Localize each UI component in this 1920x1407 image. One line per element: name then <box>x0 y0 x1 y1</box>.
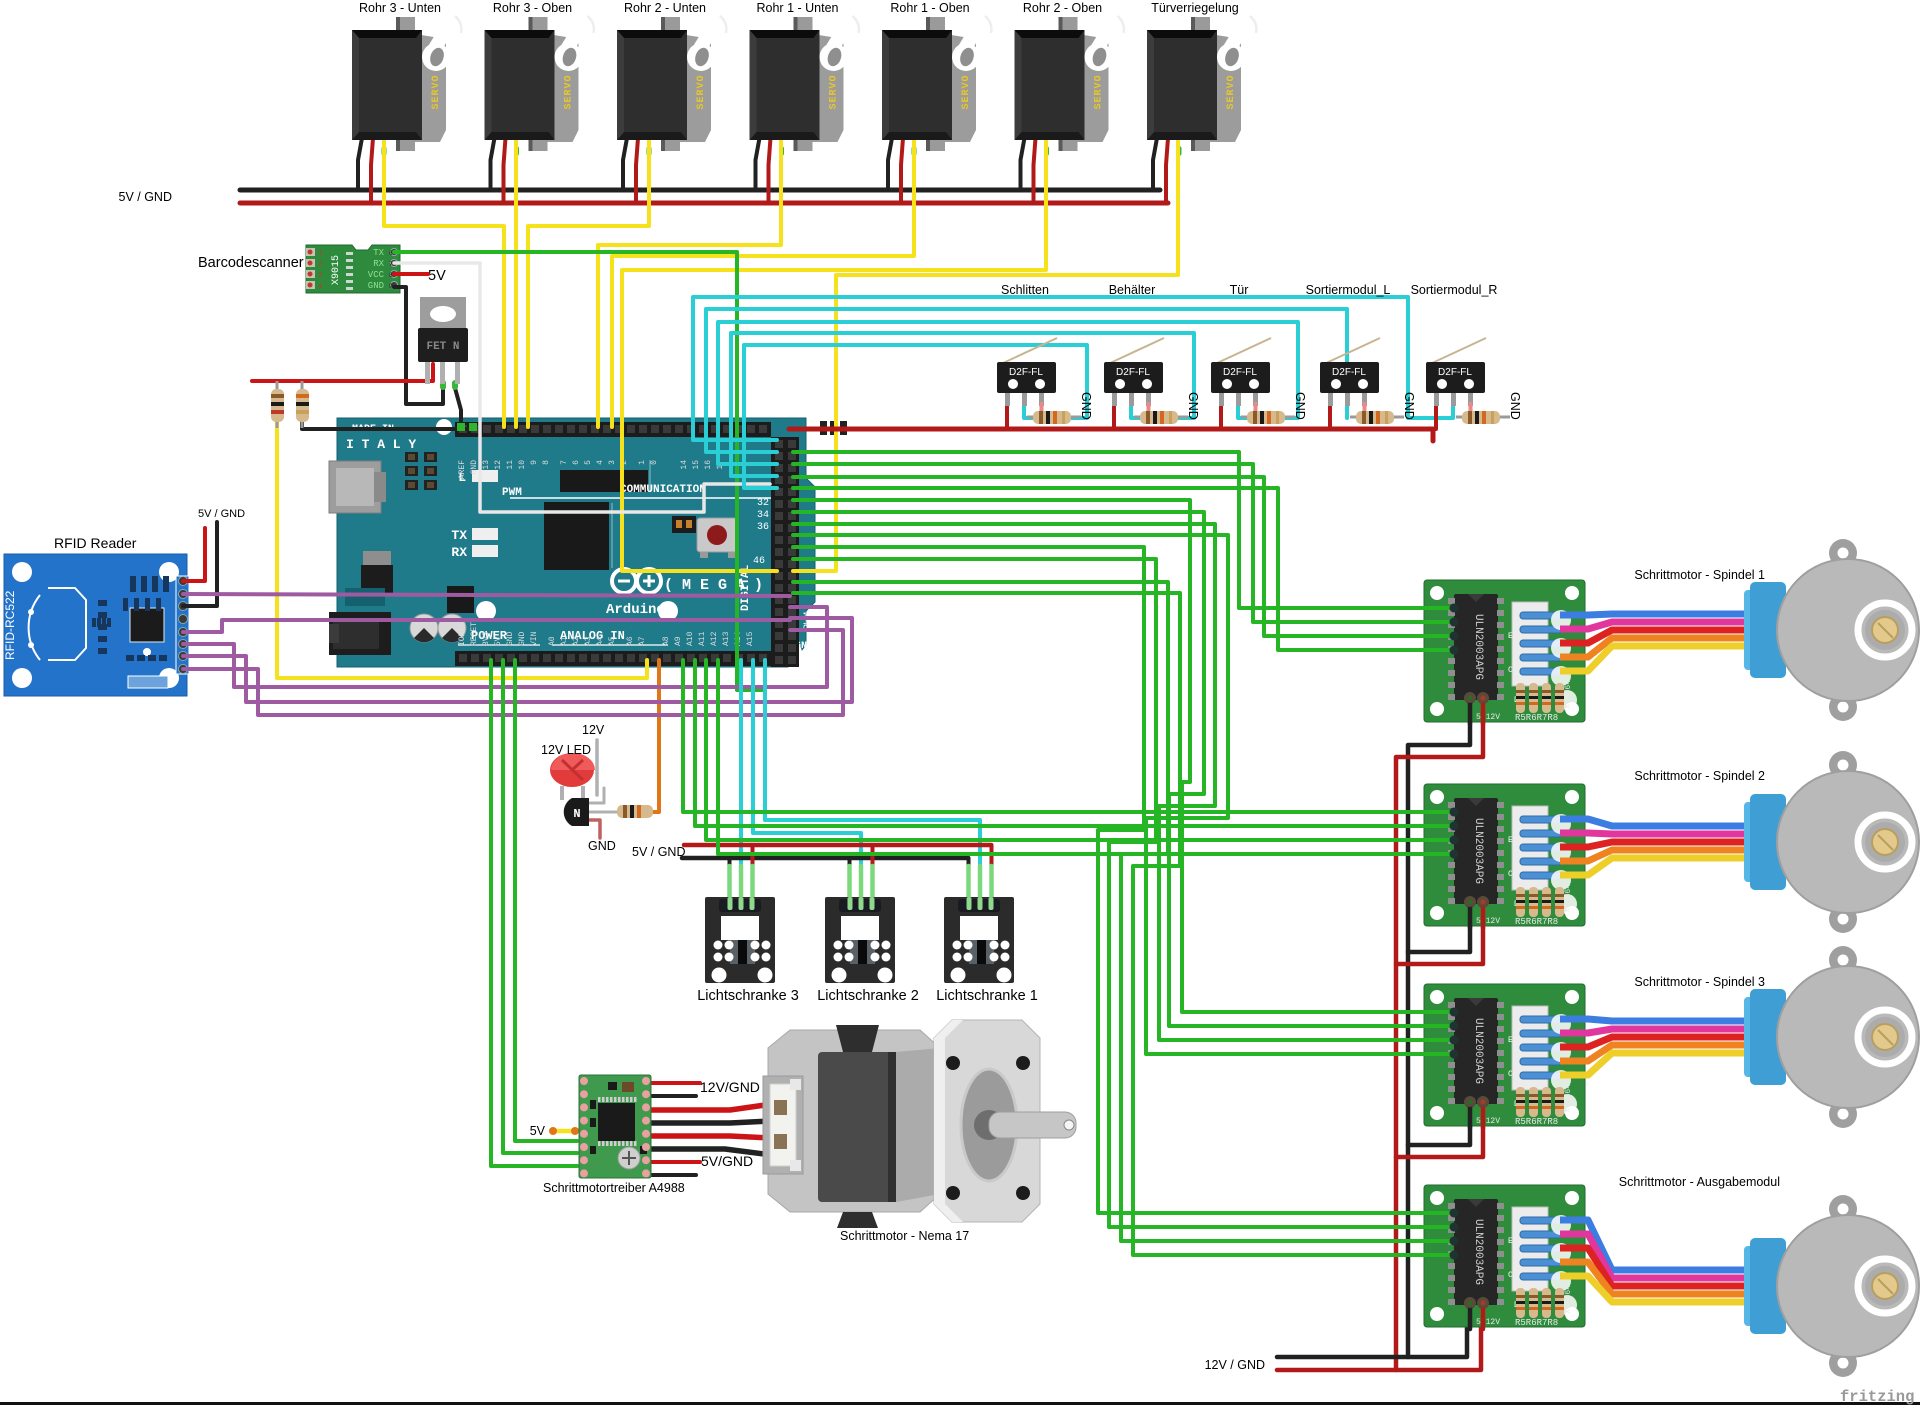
svg-text:Schrittmotor - Spindel 3: Schrittmotor - Spindel 3 <box>1634 975 1765 989</box>
svg-text:12V LED: 12V LED <box>541 743 591 757</box>
svg-text:Schrittmotor - Spindel 1: Schrittmotor - Spindel 1 <box>1634 568 1765 582</box>
svg-text:4: 4 <box>318 283 322 291</box>
svg-text:5V / GND: 5V / GND <box>632 845 686 859</box>
svg-text:fritzing: fritzing <box>1840 1388 1914 1406</box>
svg-text:Rohr 1 - Unten: Rohr 1 - Unten <box>757 1 839 15</box>
svg-text:AREF: AREF <box>458 460 467 479</box>
svg-text:Sortiermodul_L: Sortiermodul_L <box>1306 283 1391 297</box>
svg-text:A2: A2 <box>572 636 581 646</box>
svg-text:GND: GND <box>1293 392 1307 420</box>
svg-text:12: 12 <box>494 460 503 470</box>
svg-text:A10: A10 <box>686 631 695 646</box>
svg-text:A12: A12 <box>710 631 719 646</box>
svg-text:12V: 12V <box>582 723 605 737</box>
svg-text:15: 15 <box>692 460 701 470</box>
svg-text:8: 8 <box>542 460 551 465</box>
svg-text:7: 7 <box>560 460 569 465</box>
svg-text:Rohr 1 - Oben: Rohr 1 - Oben <box>890 1 969 15</box>
svg-text:RESET: RESET <box>470 622 479 646</box>
svg-text:10: 10 <box>518 460 527 470</box>
svg-text:COMMUNICATION: COMMUNICATION <box>620 484 706 496</box>
svg-text:11: 11 <box>506 460 515 470</box>
svg-text:RX: RX <box>451 545 467 560</box>
svg-text:3: 3 <box>318 272 322 280</box>
svg-text:GND: GND <box>1508 392 1522 420</box>
svg-text:A8: A8 <box>662 636 671 646</box>
svg-text:Schrittmotor - Ausgabemodul: Schrittmotor - Ausgabemodul <box>1619 1175 1780 1189</box>
svg-text:14: 14 <box>680 460 689 470</box>
svg-text:RFID Reader: RFID Reader <box>54 535 137 551</box>
svg-text:7: 7 <box>389 261 393 268</box>
svg-text:1: 1 <box>318 250 322 258</box>
svg-text:Tür: Tür <box>1230 283 1249 297</box>
svg-text:Lichtschranke 3: Lichtschranke 3 <box>697 988 799 1004</box>
svg-text:2: 2 <box>318 261 322 269</box>
svg-text:FET N: FET N <box>426 341 459 353</box>
svg-text:TX: TX <box>373 248 384 258</box>
svg-text:Rohr 3 - Unten: Rohr 3 - Unten <box>359 1 441 15</box>
svg-text:13: 13 <box>482 460 491 470</box>
svg-text:5V/GND: 5V/GND <box>701 1153 753 1169</box>
svg-text:12V / GND: 12V / GND <box>1205 1358 1265 1372</box>
svg-text:6: 6 <box>572 460 581 465</box>
svg-text:3: 3 <box>608 460 617 465</box>
svg-text:Rohr 2 - Oben: Rohr 2 - Oben <box>1023 1 1102 15</box>
svg-text:A7: A7 <box>638 636 647 646</box>
svg-text:1: 1 <box>638 460 647 465</box>
svg-text:RX: RX <box>373 259 384 269</box>
svg-text:GND: GND <box>1402 392 1416 420</box>
svg-text:36: 36 <box>757 522 769 533</box>
svg-text:GND: GND <box>368 281 384 291</box>
svg-text:A5: A5 <box>608 636 617 646</box>
svg-text:5V / GND: 5V / GND <box>119 190 173 204</box>
svg-text:12V/GND: 12V/GND <box>700 1079 760 1095</box>
svg-text:Türverriegelung: Türverriegelung <box>1151 1 1239 15</box>
svg-text:N: N <box>573 807 580 821</box>
svg-text:RFID-RC522: RFID-RC522 <box>3 590 17 660</box>
svg-text:5V: 5V <box>428 268 446 284</box>
svg-text:A15: A15 <box>746 631 755 646</box>
svg-text:A9: A9 <box>674 636 683 646</box>
svg-text:Barcodescanner: Barcodescanner <box>198 255 304 271</box>
svg-text:GND: GND <box>518 631 527 646</box>
svg-text:Arduino: Arduino <box>606 602 665 618</box>
svg-text:A11: A11 <box>698 631 707 646</box>
svg-text:GND: GND <box>470 460 479 475</box>
svg-text:Rohr 3 - Oben: Rohr 3 - Oben <box>493 1 572 15</box>
svg-text:5V: 5V <box>530 1124 546 1138</box>
svg-text:A4: A4 <box>596 636 605 646</box>
svg-text:A0: A0 <box>548 636 557 646</box>
svg-text:9: 9 <box>530 460 539 465</box>
svg-text:16: 16 <box>704 460 713 470</box>
svg-text:GND: GND <box>588 839 616 853</box>
svg-text:A3: A3 <box>584 636 593 646</box>
svg-text:Lichtschranke 2: Lichtschranke 2 <box>817 988 919 1004</box>
svg-text:IOREF: IOREF <box>458 622 467 646</box>
svg-text:VIN: VIN <box>530 631 539 646</box>
svg-text:Schrittmotor - Nema 17: Schrittmotor - Nema 17 <box>840 1229 969 1243</box>
svg-text:GND: GND <box>1079 392 1093 420</box>
svg-text:I T A L Y: I T A L Y <box>346 437 416 452</box>
svg-text:34: 34 <box>757 510 769 521</box>
svg-text:A13: A13 <box>722 631 731 646</box>
svg-text:PWM: PWM <box>502 487 522 499</box>
svg-text:Schrittmotor - Spindel 2: Schrittmotor - Spindel 2 <box>1634 769 1765 783</box>
svg-text:32: 32 <box>757 498 769 509</box>
svg-text:Behälter: Behälter <box>1109 283 1156 297</box>
svg-text:3V3: 3V3 <box>482 631 491 646</box>
svg-text:4: 4 <box>596 460 605 465</box>
svg-text:46: 46 <box>753 556 765 567</box>
svg-text:X9015: X9015 <box>331 255 342 285</box>
svg-text:0: 0 <box>650 460 659 465</box>
svg-text:GND: GND <box>1186 392 1200 420</box>
svg-text:5V / GND: 5V / GND <box>198 508 245 520</box>
svg-text:VCC: VCC <box>368 270 385 280</box>
svg-text:5V: 5V <box>494 636 503 646</box>
svg-text:Lichtschranke 1: Lichtschranke 1 <box>936 988 1038 1004</box>
svg-text:A6: A6 <box>626 636 635 646</box>
svg-text:Schrittmotortreiber A4988: Schrittmotortreiber A4988 <box>543 1181 685 1195</box>
svg-text:Sortiermodul_R: Sortiermodul_R <box>1411 283 1498 297</box>
svg-text:GND: GND <box>506 631 515 646</box>
svg-text:A1: A1 <box>560 636 569 646</box>
svg-text:5: 5 <box>584 460 593 465</box>
svg-text:PWM: PWM <box>803 612 814 630</box>
svg-text:Schlitten: Schlitten <box>1001 283 1049 297</box>
svg-text:TX: TX <box>451 528 467 543</box>
svg-text:Rohr 2 - Unten: Rohr 2 - Unten <box>624 1 706 15</box>
